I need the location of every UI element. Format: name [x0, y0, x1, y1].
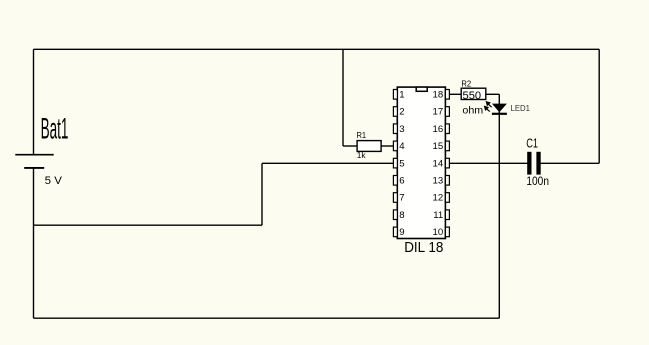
resistor R2 box	[461, 88, 486, 99]
IC pin 12 box	[445, 193, 449, 203]
LED1 triangle (anode, pointing down)	[492, 104, 507, 113]
svg-text:10: 10	[433, 227, 444, 238]
IC pin 11 box	[445, 210, 449, 220]
svg-text:8: 8	[399, 210, 404, 221]
IC pin 4 box	[393, 141, 397, 151]
LED1 emission arrow upper	[486, 102, 491, 107]
svg-text:2: 2	[399, 107, 404, 118]
wire right vertical (top rail down to C1 net)	[598, 49, 600, 163]
IC pin 1 box	[393, 90, 397, 100]
resistor R1 box	[357, 141, 381, 152]
IC pin 2 box	[393, 107, 397, 117]
wire R2 to LED corner	[486, 93, 500, 95]
capacitor C1 left plate	[527, 152, 531, 175]
IC pin 7 box	[393, 193, 397, 203]
svg-text:ohm: ohm	[462, 106, 483, 117]
IC pin 13 box	[445, 176, 449, 186]
IC pin 9 box	[393, 227, 397, 237]
svg-text:C1: C1	[526, 136, 538, 150]
svg-text:LED1: LED1	[511, 104, 531, 113]
IC pin 17 box	[445, 107, 449, 117]
svg-text:Bat1: Bat1	[41, 112, 69, 145]
IC U1 body (DIL 18)	[397, 87, 445, 238]
wire LED vertical (R2 corner through LED to bottom rail)	[498, 94, 500, 318]
svg-text:17: 17	[433, 107, 444, 118]
svg-text:12: 12	[433, 193, 444, 204]
IC pin 15 box	[445, 141, 449, 151]
svg-text:18: 18	[433, 90, 444, 101]
svg-text:550: 550	[463, 90, 482, 102]
wire step vertical	[261, 163, 263, 225]
svg-text:5 V: 5 V	[45, 175, 63, 187]
battery Bat1 short plate (-)	[24, 167, 44, 169]
svg-text:DIL 18: DIL 18	[404, 240, 443, 256]
wire left vertical (top rail to battery +)	[33, 49, 35, 154]
IC pin 5 box	[393, 158, 397, 168]
svg-text:1k: 1k	[357, 151, 366, 160]
capacitor C1 right plate	[536, 152, 540, 175]
wire bottom rail	[34, 317, 500, 319]
IC pin 14 box	[445, 158, 449, 168]
LED1 cathode bar	[492, 113, 507, 115]
svg-text:4: 4	[399, 141, 405, 152]
svg-text:100n: 100n	[526, 175, 549, 188]
svg-text:3: 3	[399, 124, 404, 135]
wire pin14 to C1 left plate	[450, 162, 528, 164]
wire top rail (battery + to right side)	[34, 48, 600, 50]
svg-text:15: 15	[433, 141, 444, 152]
svg-text:16: 16	[433, 124, 444, 135]
wire into R1 left	[343, 145, 357, 147]
svg-text:13: 13	[433, 176, 444, 187]
svg-text:11: 11	[433, 210, 443, 221]
wire R1 right to pin4	[381, 145, 393, 147]
IC pin 6 box	[393, 176, 397, 186]
wire C1 right plate to right vertical	[540, 162, 599, 164]
IC pin 3 box	[393, 124, 397, 134]
wire step horizontal to battery -	[34, 224, 263, 226]
svg-text:14: 14	[433, 158, 444, 169]
wire battery - down left side	[33, 168, 35, 318]
svg-text:R1: R1	[357, 131, 367, 140]
wire pin5 to left step	[262, 162, 393, 164]
wire pin18 to R2	[450, 93, 462, 95]
IC notch mark	[416, 87, 427, 91]
IC pin 18 box	[445, 90, 449, 100]
IC pin 16 box	[445, 124, 449, 134]
svg-text:R2: R2	[461, 79, 471, 88]
IC pin 10 box	[445, 227, 449, 237]
svg-text:5: 5	[399, 158, 404, 169]
IC pin 8 box	[393, 210, 397, 220]
svg-text:1: 1	[399, 90, 404, 101]
svg-text:6: 6	[399, 176, 404, 187]
LED1 emission arrow lower	[485, 107, 490, 112]
svg-text:9: 9	[399, 227, 404, 238]
battery Bat1 long plate (+)	[15, 154, 53, 156]
wire branch from top rail down to R1	[342, 49, 344, 146]
svg-text:7: 7	[399, 193, 404, 204]
